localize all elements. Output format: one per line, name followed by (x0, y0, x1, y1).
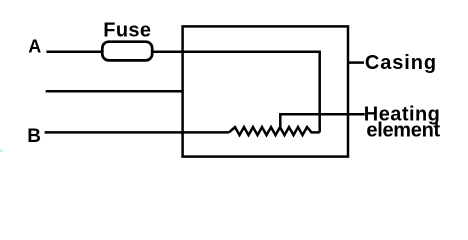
svg-text:Casing: Casing (365, 52, 437, 74)
svg-text:Fuse: Fuse (103, 20, 151, 42)
svg-text:A: A (28, 37, 41, 57)
svg-text:element: element (366, 119, 440, 141)
svg-text:B: B (27, 126, 41, 147)
